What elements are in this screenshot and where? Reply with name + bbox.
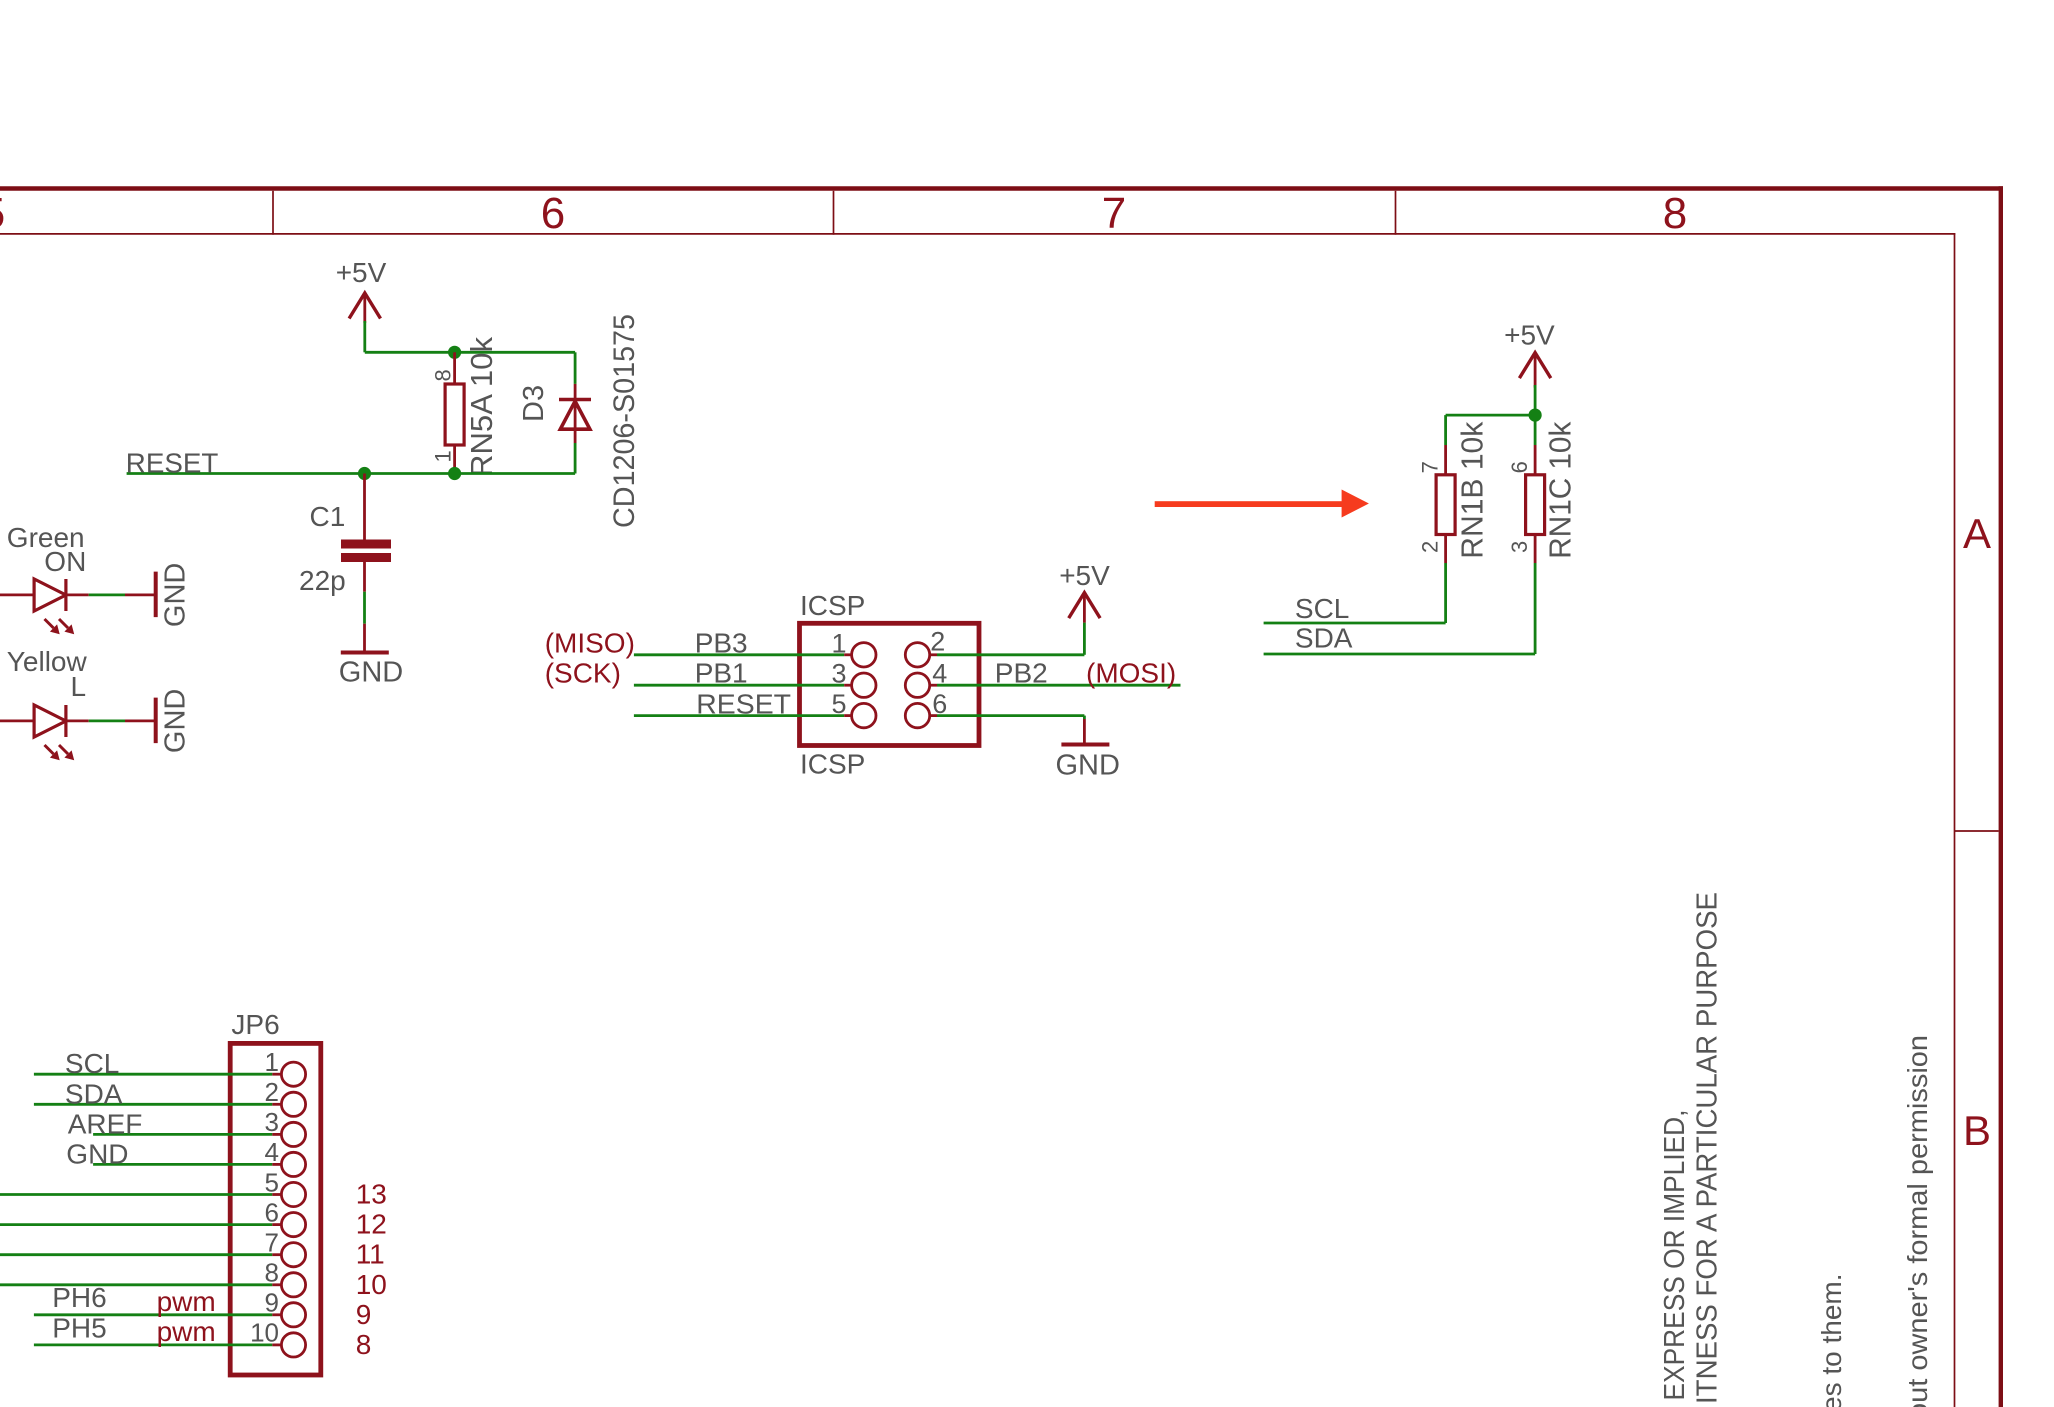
- wire RESET net: [127, 472, 575, 475]
- svg-text:GND: GND: [160, 563, 192, 627]
- ICSP pin circle 4: [905, 673, 929, 697]
- svg-text:22p: 22p: [299, 565, 346, 596]
- svg-text:L: L: [71, 671, 87, 702]
- svg-text:PH5: PH5: [52, 1313, 106, 1344]
- ICSP pin circle 5: [852, 703, 876, 727]
- svg-text:GND: GND: [1055, 750, 1119, 782]
- svg-text:5: 5: [0, 189, 5, 238]
- svg-text:PB3: PB3: [695, 627, 748, 658]
- svg-text:4: 4: [265, 1137, 279, 1167]
- svg-text:C1: C1: [310, 501, 346, 532]
- svg-text:3: 3: [1507, 541, 1532, 553]
- JP6 pin circle 6: [281, 1213, 305, 1237]
- svg-text:+5V: +5V: [1504, 320, 1555, 351]
- svg-text:RN5A 10k: RN5A 10k: [465, 336, 499, 477]
- svg-text:6: 6: [1507, 461, 1532, 473]
- wire RESET net to ICSP pin 5: [634, 714, 852, 717]
- svg-text:RESET: RESET: [696, 688, 791, 719]
- JP6 pin circle 7: [281, 1243, 305, 1267]
- svg-text:3: 3: [265, 1107, 279, 1137]
- wire to JP6 pin 6: [0, 1223, 281, 1226]
- junction RESET/C1: [358, 467, 371, 480]
- resistor RN5A: [445, 352, 464, 473]
- svg-text:es to them.: es to them.: [1816, 1273, 1847, 1407]
- wire to JP6 pin 4: [93, 1163, 281, 1166]
- svg-text:out owner's formal permission: out owner's formal permission: [1902, 1035, 1933, 1407]
- wire SDA net to RN1C pin 3: [1264, 563, 1536, 654]
- wire to JP6 pin 1: [34, 1073, 282, 1076]
- svg-text:ON: ON: [44, 546, 86, 577]
- JP6 pin circle 2: [281, 1092, 305, 1116]
- wire LED2 cathode to GND: [89, 720, 125, 723]
- wire to JP6 pin 10: [34, 1344, 282, 1347]
- ground symbol at LED1 (rotated): [125, 572, 156, 618]
- resistor RN1C: [1526, 445, 1545, 563]
- wire D3 anode to RESET net: [574, 443, 577, 474]
- svg-text:11: 11: [356, 1239, 385, 1270]
- wire SCL net to RN1B pin 2: [1264, 563, 1446, 623]
- wire ICSP pin 2 to +5V: [930, 623, 1085, 655]
- svg-text:pwm: pwm: [157, 1286, 216, 1317]
- svg-text:SCL: SCL: [65, 1048, 119, 1079]
- wire +5V to RN1B/RN1C: [1446, 385, 1536, 445]
- svg-text:2: 2: [1418, 541, 1443, 553]
- svg-text:7: 7: [265, 1228, 279, 1258]
- connector ICSP box: [800, 623, 980, 745]
- svg-text:8: 8: [356, 1329, 372, 1360]
- wire to JP6 pin 3: [93, 1133, 281, 1136]
- wire ICSP pin 6 to GND: [930, 716, 1085, 743]
- connector JP6 box: [230, 1043, 321, 1375]
- svg-text:RESET: RESET: [126, 448, 219, 479]
- diode D3: [559, 384, 591, 443]
- svg-text:2: 2: [930, 626, 945, 656]
- JP6 pin circle 5: [281, 1182, 305, 1206]
- svg-text:10: 10: [250, 1318, 279, 1348]
- svg-text:PH6: PH6: [52, 1282, 106, 1313]
- svg-text:1: 1: [265, 1047, 279, 1077]
- wire SCK net to ICSP pin 3: [634, 684, 852, 687]
- svg-text:ICSP: ICSP: [800, 590, 865, 621]
- wire MISO net to ICSP pin 1: [634, 653, 852, 656]
- JP6 pin circle 10: [281, 1333, 305, 1357]
- wire +5V net to RN5A and D3: [365, 321, 575, 384]
- svg-text:pwm: pwm: [157, 1316, 216, 1347]
- svg-text:A: A: [1963, 510, 1991, 557]
- svg-text:B: B: [1963, 1107, 1991, 1154]
- svg-text:EXPRESS OR IMPLIED,: EXPRESS OR IMPLIED,: [1659, 1110, 1691, 1401]
- svg-text:2: 2: [265, 1077, 279, 1107]
- wire to JP6 pin 9: [34, 1313, 282, 1316]
- ground symbol below C1: [341, 651, 389, 655]
- ground symbol at LED2 (rotated): [125, 698, 156, 744]
- svg-text:8: 8: [431, 369, 456, 381]
- wire to JP6 pin 8: [0, 1283, 281, 1286]
- JP6 pin circle 8: [281, 1273, 305, 1297]
- svg-text:1: 1: [431, 450, 456, 462]
- JP6 pin circle 4: [281, 1152, 305, 1176]
- wire ICSP pin 4 MOSI net: [930, 684, 1181, 687]
- annotation red arrow: [1155, 490, 1369, 518]
- svg-text:GND: GND: [160, 689, 192, 753]
- svg-text:5: 5: [265, 1167, 279, 1197]
- svg-text:SDA: SDA: [65, 1079, 123, 1110]
- svg-text:SDA: SDA: [1295, 623, 1353, 654]
- svg-text:9: 9: [265, 1288, 279, 1318]
- resistor RN1B: [1436, 445, 1455, 563]
- LED LED1 (green power LED): [0, 579, 89, 634]
- LED LED2 (yellow L LED): [0, 705, 89, 760]
- ICSP pin circle 1: [852, 643, 876, 667]
- svg-text:(SCK): (SCK): [545, 658, 621, 689]
- svg-text:GND: GND: [66, 1138, 128, 1169]
- junction RESET/RN5A pin 1: [448, 467, 461, 480]
- svg-text:+5V: +5V: [1059, 560, 1110, 591]
- JP6 pin circle 3: [281, 1122, 305, 1146]
- svg-text:12: 12: [356, 1209, 387, 1240]
- svg-text:RN1C 10k: RN1C 10k: [1544, 421, 1578, 559]
- junction +5V net at RN5A pin 8: [448, 346, 461, 359]
- svg-text:ITNESS FOR A PARTICULAR PURPOS: ITNESS FOR A PARTICULAR PURPOSE: [1692, 892, 1724, 1404]
- capacitor C1: [341, 474, 391, 558]
- svg-text:(MISO): (MISO): [545, 627, 635, 658]
- ICSP pin circle 6: [905, 703, 929, 727]
- svg-text:ICSP: ICSP: [800, 749, 865, 780]
- power +5V symbol (top left): [349, 293, 380, 323]
- svg-text:6: 6: [541, 189, 565, 238]
- svg-text:(MOSI): (MOSI): [1086, 658, 1176, 689]
- svg-text:PB1: PB1: [695, 658, 748, 689]
- ICSP pin circle 3: [852, 673, 876, 697]
- svg-text:CD1206-S01575: CD1206-S01575: [608, 314, 641, 528]
- svg-text:13: 13: [356, 1179, 387, 1210]
- wire C1 to GND: [363, 562, 366, 651]
- JP6 pin circle 1: [281, 1062, 305, 1086]
- svg-text:8: 8: [265, 1258, 279, 1288]
- wire to JP6 pin 7: [0, 1253, 281, 1256]
- svg-text:+5V: +5V: [336, 257, 387, 288]
- svg-text:GND: GND: [339, 657, 403, 689]
- ground symbol below ICSP: [1061, 743, 1109, 747]
- svg-text:7: 7: [1102, 189, 1126, 238]
- svg-text:JP6: JP6: [231, 1009, 279, 1040]
- svg-text:PB2: PB2: [995, 658, 1048, 689]
- power +5V symbol above ICSP: [1069, 593, 1100, 623]
- svg-text:D3: D3: [518, 385, 550, 422]
- svg-text:9: 9: [356, 1299, 372, 1330]
- ICSP pin circle 2: [905, 643, 929, 667]
- svg-text:6: 6: [265, 1197, 279, 1227]
- svg-text:AREF: AREF: [68, 1109, 143, 1140]
- wire to JP6 pin 2: [34, 1103, 282, 1106]
- svg-text:10: 10: [356, 1269, 387, 1300]
- junction +5V at RN1C: [1529, 409, 1542, 422]
- wire to JP6 pin 5: [0, 1193, 281, 1196]
- JP6 pin circle 9: [281, 1303, 305, 1327]
- svg-text:RN1B 10k: RN1B 10k: [1456, 421, 1490, 559]
- power +5V symbol at RN1: [1519, 353, 1550, 388]
- svg-text:7: 7: [1418, 461, 1443, 473]
- svg-text:SCL: SCL: [1295, 593, 1349, 624]
- svg-text:8: 8: [1663, 189, 1687, 238]
- wire LED1 cathode to GND: [89, 594, 125, 597]
